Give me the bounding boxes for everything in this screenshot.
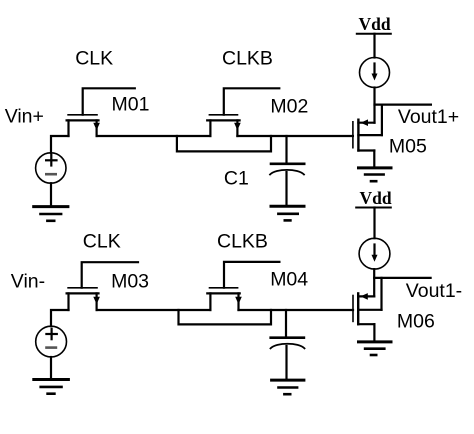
label CLK (bottom) [83, 231, 121, 253]
wire V2 to ground [50, 357, 52, 379]
label M06 [397, 311, 435, 333]
wire M02 to M05 gate [237, 135, 353, 137]
wire M04 to M06 gate [239, 309, 354, 311]
wire source of M03 to V2 [51, 310, 69, 326]
capacitor hold (bottom half) [271, 310, 305, 380]
svg-text:Vout1-: Vout1- [406, 280, 462, 302]
wire I2 to M06 drain node [373, 269, 375, 296]
svg-text:M05: M05 [389, 136, 427, 158]
supply Vdd (top) [357, 34, 391, 58]
svg-text:Vdd: Vdd [359, 14, 391, 34]
transistor M04 [207, 262, 279, 310]
svg-text:CLKB: CLKB [217, 231, 268, 253]
transistor M06 [353, 278, 382, 341]
svg-text:Vin-: Vin- [11, 270, 45, 292]
current source I2 [359, 238, 390, 269]
wire M03 drain to M04 [97, 309, 211, 311]
label C1 [224, 168, 249, 190]
svg-text:M02: M02 [270, 96, 308, 118]
transistor M05 [353, 105, 382, 168]
wire source of M01 to V1 [51, 136, 69, 153]
label Vin+ [5, 106, 44, 128]
svg-text:M01: M01 [112, 94, 150, 116]
svg-text:CLKB: CLKB [222, 47, 273, 69]
label M01 [112, 94, 150, 116]
svg-text:M03: M03 [111, 270, 149, 292]
voltage source V1 [36, 153, 66, 183]
current source I1 [360, 58, 390, 88]
label M04 [270, 269, 308, 291]
svg-text:M04: M04 [270, 269, 308, 291]
wire bottom-plate loop (top half) [177, 136, 271, 151]
label CLKB (bottom) [217, 231, 268, 253]
svg-text:Vout1+: Vout1+ [398, 106, 459, 128]
wire M01 drain to M02 [97, 135, 211, 137]
ground (below V1) [34, 207, 68, 221]
label CLKB (top) [222, 47, 273, 69]
label M05 [389, 136, 427, 158]
label M02 [270, 96, 308, 118]
ground (below hold cap, bottom half) [272, 380, 304, 394]
ground (below M06) [359, 342, 392, 355]
label Vout1- [406, 280, 462, 302]
label CLK (top) [75, 47, 113, 69]
ground (below V2) [34, 380, 69, 394]
svg-text:C1: C1 [224, 168, 249, 190]
wire bottom-plate loop (bottom half) [179, 310, 272, 324]
svg-text:CLK: CLK [75, 47, 113, 69]
capacitor hold (top half) [270, 136, 304, 206]
label Vin- [11, 270, 45, 292]
svg-text:CLK: CLK [83, 231, 121, 253]
svg-text:Vdd: Vdd [360, 188, 392, 208]
svg-text:Vin+: Vin+ [5, 106, 44, 128]
wire I1 to M05 drain node [373, 88, 375, 123]
wire V1 to ground [50, 183, 52, 206]
svg-text:M06: M06 [397, 311, 435, 333]
transistor M01 [67, 88, 135, 136]
supply Vdd (bottom) [356, 208, 391, 239]
wire Vout1+ [375, 103, 431, 105]
ground (below M05) [359, 168, 392, 181]
transistor M02 [207, 88, 279, 136]
voltage source V2 [36, 326, 67, 357]
ground (below hold cap, top half) [271, 206, 304, 220]
wire Vout1- [374, 277, 430, 279]
label Vout1+ [398, 106, 459, 128]
transistor M03 [67, 262, 138, 310]
label M03 [111, 270, 149, 292]
